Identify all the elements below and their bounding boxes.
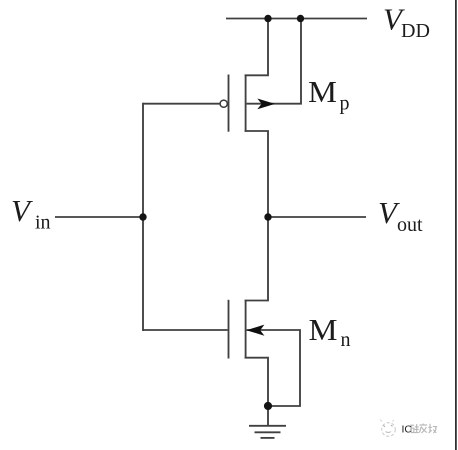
svg-text:in: in bbox=[35, 212, 51, 234]
svg-text:V: V bbox=[11, 193, 33, 228]
svg-text:M: M bbox=[309, 312, 338, 347]
svg-text:M: M bbox=[308, 74, 337, 109]
svg-text:DD: DD bbox=[401, 20, 430, 42]
svg-text:p: p bbox=[340, 93, 350, 115]
svg-text:n: n bbox=[341, 329, 351, 351]
svg-text:out: out bbox=[397, 214, 423, 236]
